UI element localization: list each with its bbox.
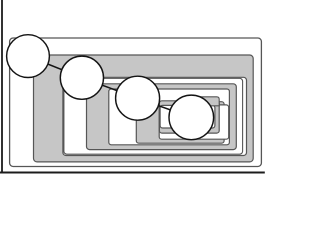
ring3 hole [159, 105, 229, 139]
node circle 4 [169, 95, 214, 140]
edge c2-c3 [82, 78, 138, 99]
outer frame bottom border [0, 172, 265, 174]
edge c1-c2 [28, 56, 82, 78]
gray frame ring3 outer [136, 102, 224, 144]
ring1 hole [63, 77, 247, 155]
inner white rect W1prime [64, 78, 243, 154]
ring4 hole [160, 105, 215, 128]
node circle 1 [7, 35, 50, 78]
rectangle W0 [10, 38, 262, 167]
node circle 2 [60, 56, 103, 99]
gray frame ring1 outer [34, 55, 254, 162]
edge c3-c4 [138, 98, 192, 117]
node circle 3 [116, 76, 160, 120]
ring2 hole [109, 89, 230, 145]
outer frame left border [1, 0, 3, 174]
gray frame ring2 outer [87, 84, 237, 150]
ring4 top-right gray collar [193, 97, 219, 106]
gray frame ring4 outer [159, 101, 219, 133]
